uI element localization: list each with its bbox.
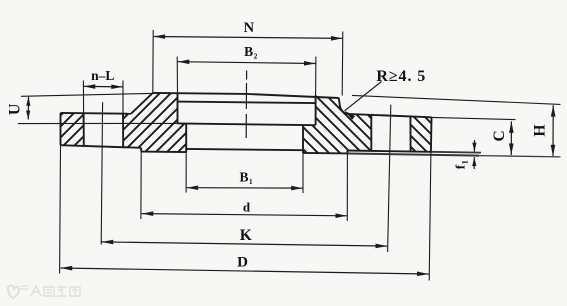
svg-text:R≥4. 5: R≥4. 5 [376,68,426,85]
svg-text:D: D [237,255,248,271]
svg-text:d: d [243,199,251,214]
svg-text:B: B [239,169,248,184]
svg-text:1: 1 [460,160,470,164]
svg-text:C: C [491,130,508,141]
svg-text:K: K [240,227,252,244]
svg-text:1: 1 [249,177,253,186]
svg-text:B: B [244,44,253,59]
svg-text:U: U [6,103,23,115]
svg-text:H: H [531,125,548,137]
svg-text:2: 2 [254,51,258,60]
svg-text:n–L: n–L [91,68,114,83]
svg-text:N: N [244,20,255,36]
